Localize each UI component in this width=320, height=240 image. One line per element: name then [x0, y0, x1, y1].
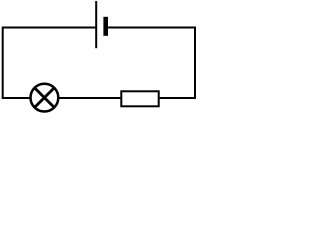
wire: top-left segment from left corner to battery positive terminal [3, 27, 97, 29]
wire: left side vertical [2, 27, 4, 99]
lamp L1: circle [31, 84, 59, 112]
lamp L1: cross diagonal stroke 2 [35, 88, 55, 108]
resistor R1: rectangular body [121, 91, 158, 106]
wire: bottom-left segment to lamp [2, 97, 31, 99]
battery cell B1: short thick negative plate [103, 17, 108, 36]
wire: bottom-right segment from resistor to right corner [159, 97, 196, 99]
wire: top-right segment from battery negative terminal to right corner [106, 27, 195, 29]
lamp L1: cross diagonal stroke 1 [35, 88, 55, 108]
wire: right side vertical [194, 27, 196, 99]
battery cell B1: long thin positive plate [95, 1, 97, 48]
wire: bottom-middle segment from lamp to resistor [58, 97, 122, 99]
